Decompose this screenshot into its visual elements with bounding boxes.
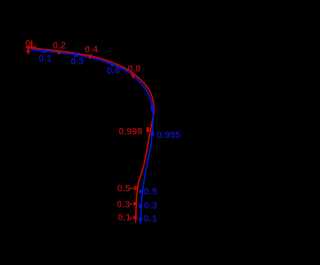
svg-text:0.1: 0.1 [118,213,132,224]
blue marker 0.3 (square) [74,53,78,57]
red marker 0.5 lower [130,186,137,190]
svg-text:0.3: 0.3 [71,57,84,68]
blue marker at knee crossing [151,105,154,111]
svg-text:0.5: 0.5 [144,186,158,197]
svg-text:0.8: 0.8 [128,64,141,75]
red marker 0.2 (triangle down) [57,51,62,56]
red marker 0.3 lower [130,202,137,206]
svg-text:0.4: 0.4 [85,45,99,56]
svg-text:0.2: 0.2 [53,41,66,52]
red marker 0.8 (triangle down) [131,74,136,79]
svg-text:0.1: 0.1 [39,54,53,65]
svg-text:0.3: 0.3 [144,200,157,211]
blue labels [39,54,182,225]
svg-text:0.5: 0.5 [117,184,131,195]
blue marker 0.6 (square) [111,63,115,67]
blue marker 0.1 (square) [42,49,46,53]
red start marker (star with down arrow) at curve origin [26,41,37,55]
blue marker 0.3 lower [139,204,143,208]
svg-text:0.998: 0.998 [119,127,143,138]
red marker 0.1 lower [130,216,137,220]
red marker 0.4 (triangle down) [88,55,93,60]
svg-text:0.995: 0.995 [157,130,181,141]
red curve [27,48,154,222]
svg-text:0.3: 0.3 [117,200,130,211]
red labels [25,38,142,223]
blue curve [31,50,153,223]
blue marker 0.995 [151,131,154,136]
blue marker 0.5 lower [139,190,143,194]
red marker 0.998 [146,127,149,132]
svg-text:0: 0 [25,38,30,49]
svg-text:0.1: 0.1 [144,213,158,224]
blue marker 0.1 lower [139,217,143,221]
svg-text:0.6: 0.6 [107,66,120,77]
